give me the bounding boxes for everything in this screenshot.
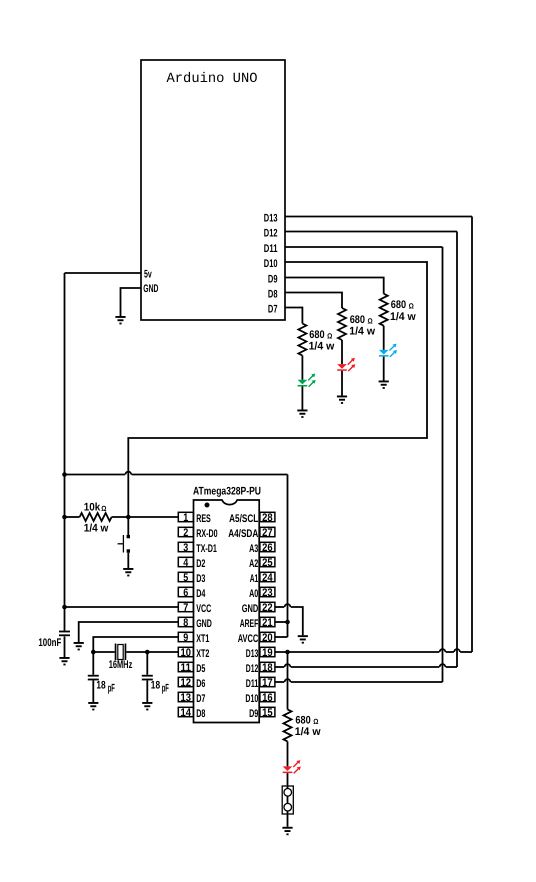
IC pin 25 A2: [249, 557, 275, 570]
wire hop pin19 over x457: [454, 649, 460, 652]
wire D8 to resistor: [285, 293, 342, 309]
LED red: [337, 358, 355, 371]
resistor 680 ohm (red LED): [338, 308, 346, 340]
IC pin 11 D5: [178, 662, 205, 675]
svg-text:ATmega328P-PU: ATmega328P-PU: [193, 486, 261, 498]
wire hop pin17 over x287.5: [285, 679, 291, 682]
wire 5v rail horizontal segment b: [132, 474, 288, 476]
wire red LED to ground: [341, 371, 343, 396]
capacitor 100nF: [59, 631, 70, 637]
svg-text:D9: D9: [268, 274, 278, 286]
svg-text:D10: D10: [245, 693, 258, 705]
svg-text:2: 2: [183, 527, 188, 539]
wire 5v to VCC pin 7: [65, 606, 179, 608]
svg-text:14: 14: [181, 707, 192, 719]
svg-text:21: 21: [262, 617, 273, 629]
capacitor 18pF right: [142, 675, 153, 681]
IC pin 26 A3: [249, 542, 275, 555]
svg-text:A1: A1: [250, 573, 259, 585]
svg-text:Arduino UNO: Arduino UNO: [167, 71, 258, 87]
svg-text:GND: GND: [196, 618, 212, 630]
svg-text:Ω: Ω: [313, 717, 318, 726]
svg-text:XT1: XT1: [196, 633, 209, 645]
svg-text:13: 13: [181, 692, 192, 704]
svg-text:1/4 w: 1/4 w: [349, 325, 375, 337]
IC pin 12 D6: [178, 677, 205, 690]
wire D11 net horizontal: [285, 246, 443, 248]
svg-text:9: 9: [183, 632, 188, 644]
wire hop pin18 over x287.5: [285, 664, 291, 667]
svg-text:Ω: Ω: [368, 316, 373, 325]
IC pin 7 VCC: [178, 602, 211, 615]
svg-text:20: 20: [262, 632, 273, 644]
IC pin 21 AREF: [240, 617, 275, 630]
svg-text:Ω: Ω: [409, 302, 414, 311]
svg-text:24: 24: [262, 572, 273, 584]
svg-text:23: 23: [262, 587, 273, 599]
ground 100nF: [59, 657, 69, 665]
wire D11 net vertical x=442.5: [442, 247, 444, 682]
svg-text:pF: pF: [108, 683, 115, 695]
IC pin 24 A1: [250, 572, 275, 585]
IC pin-1 indicator dot: [205, 503, 210, 508]
wire GND pin 22 segment a: [275, 606, 284, 608]
svg-text:5v: 5v: [144, 268, 152, 280]
wire 5v rail vertical to AVCC: [287, 475, 289, 638]
IC pin 5 D3: [178, 572, 205, 585]
svg-text:16: 16: [262, 692, 273, 704]
svg-text:A2: A2: [249, 558, 258, 570]
wire blue LED to ground: [383, 357, 385, 381]
junction crystal right node: [145, 650, 150, 655]
svg-text:VCC: VCC: [196, 603, 211, 615]
junction AREF on 5v vertical: [285, 620, 290, 625]
junction pin 19 and LED branch: [285, 650, 290, 655]
wire D12 net vertical x=457: [456, 232, 458, 668]
svg-text:1/4 w: 1/4 w: [309, 341, 335, 353]
ground blue LED: [379, 381, 389, 389]
wire pin 18 D12 segment a: [275, 666, 284, 668]
IC pin 27 A4/SDA: [228, 527, 275, 540]
svg-text:D7: D7: [196, 693, 205, 705]
svg-text:D10: D10: [264, 258, 278, 270]
junction 5v rail at VCC wire: [62, 605, 67, 610]
wire pin 19 D13 segment b: [446, 651, 454, 653]
ground pin 8: [74, 642, 84, 650]
svg-text:A4/SDA: A4/SDA: [228, 528, 258, 540]
svg-text:18: 18: [151, 680, 160, 692]
wire pin 18 D12 segment b: [291, 666, 440, 668]
svg-text:D8: D8: [196, 708, 205, 720]
IC pin 18 D12: [246, 662, 275, 675]
crystal 16MHz: [115, 644, 127, 661]
wire crystal right to XT2 pin 10: [126, 651, 178, 653]
svg-text:11: 11: [181, 662, 192, 674]
ground push button: [123, 568, 133, 576]
svg-text:XT2: XT2: [196, 648, 209, 660]
svg-text:16MHz: 16MHz: [109, 659, 133, 671]
wire crystal left: [93, 651, 114, 653]
resistor 680 ohm (green LED): [298, 324, 306, 356]
svg-text:1/4 w: 1/4 w: [295, 726, 321, 738]
IC pin 2 RX-D0: [178, 527, 217, 540]
junction crystal left node: [91, 650, 96, 655]
svg-text:D6: D6: [196, 678, 205, 690]
wire D13 net vertical x=472: [471, 217, 473, 653]
svg-text:1: 1: [183, 512, 188, 524]
wire D9 to resistor: [285, 278, 384, 294]
wire 100nF to ground: [64, 636, 66, 657]
svg-text:D4: D4: [196, 588, 206, 600]
wire pin 17 D11 segment a: [275, 681, 284, 683]
IC pin 8 GND: [178, 617, 212, 630]
wire left 18pF cap to ground: [92, 680, 94, 702]
svg-text:D3: D3: [196, 573, 205, 585]
wire pin19 junction to resistor: [287, 652, 289, 709]
svg-text:18: 18: [96, 680, 105, 692]
IC pin 14 D8: [178, 707, 205, 720]
wire pin 19 D13 segment a: [275, 651, 439, 653]
wire green LED to ground: [301, 387, 303, 410]
ground bottom connector: [282, 827, 292, 835]
svg-text:A0: A0: [249, 588, 258, 600]
svg-text:D5: D5: [196, 663, 205, 675]
svg-text:pF: pF: [162, 683, 169, 695]
junction 5v rail at y=474.5: [62, 472, 67, 477]
svg-text:7: 7: [183, 602, 188, 614]
wire resistor to red LED: [341, 340, 343, 364]
LED green: [298, 374, 316, 387]
svg-text:A3: A3: [249, 543, 258, 555]
svg-text:27: 27: [262, 527, 273, 539]
svg-text:5: 5: [183, 572, 188, 584]
svg-text:4: 4: [183, 557, 189, 569]
capacitor 18pF left: [88, 675, 99, 681]
IC pin 16 D10: [245, 692, 275, 705]
svg-text:1/4 w: 1/4 w: [390, 311, 416, 323]
svg-text:GND: GND: [242, 603, 259, 615]
wire resistor to blue LED: [383, 326, 385, 350]
wire Arduino 5v pin to left rail: [65, 272, 142, 274]
IC pin 19 D13: [246, 647, 275, 660]
svg-text:680: 680: [309, 329, 324, 341]
svg-text:D12: D12: [264, 228, 278, 240]
IC pin 6 D4: [178, 587, 206, 600]
wire D7 to resistor: [285, 308, 302, 324]
IC pin 17 D11: [246, 677, 275, 690]
svg-text:17: 17: [262, 677, 273, 689]
svg-text:6: 6: [183, 587, 188, 599]
svg-text:100nF: 100nF: [38, 637, 61, 649]
svg-text:AREF: AREF: [240, 618, 259, 630]
svg-text:Ω: Ω: [327, 331, 332, 340]
wire button to ground: [127, 553, 129, 568]
wire hop pin18 over x442.5: [440, 664, 446, 667]
wire resistor to green LED: [301, 356, 303, 380]
svg-text:D12: D12: [246, 663, 259, 675]
wire 5v rail horizontal segment a: [65, 474, 126, 476]
wire Arduino GND pin: [121, 288, 142, 316]
wire 10k to RES pin: [112, 516, 179, 518]
IC pin 20 AVCC: [238, 632, 275, 645]
ground left 18pF: [88, 702, 98, 710]
svg-text:15: 15: [262, 707, 273, 719]
ground red LED: [337, 396, 347, 404]
svg-text:680: 680: [350, 314, 365, 326]
IC pin 23 A0: [249, 587, 275, 600]
wire pin 17 D11 segment b: [291, 681, 443, 683]
wire GND pin 22 segment b: [291, 607, 303, 635]
resistor 680 ohm (bottom LED): [284, 709, 292, 741]
wire right 18pF cap to ground: [146, 680, 148, 702]
junction node RESET: [126, 515, 131, 520]
svg-text:TX-D1: TX-D1: [196, 543, 217, 555]
ground Arduino GND: [115, 316, 125, 324]
svg-text:8: 8: [183, 617, 188, 629]
ground pin 22: [298, 635, 308, 643]
svg-text:Ω: Ω: [101, 504, 106, 513]
wire 5v vertical rail x=64.5: [64, 273, 66, 631]
IC pin 4 D2: [178, 557, 205, 570]
svg-text:D2: D2: [196, 558, 205, 570]
LED red bottom: [283, 760, 301, 773]
svg-text:A5/SCL: A5/SCL: [229, 513, 258, 525]
svg-text:D8: D8: [268, 289, 278, 301]
svg-text:680: 680: [295, 715, 310, 727]
svg-text:RES: RES: [196, 513, 211, 525]
connector J1 2-pin: [282, 786, 293, 814]
wire resistor to bottom LED: [287, 741, 289, 766]
wire AVCC pin 20 to 5v: [275, 636, 288, 638]
IC pin 1 RES: [178, 512, 211, 525]
svg-text:26: 26: [262, 542, 273, 554]
wire right 18pF cap top: [146, 652, 148, 675]
wire bottom LED through connector to ground: [287, 773, 289, 827]
wire AREF pin 21 to 5v: [275, 621, 288, 623]
wire D13 net horizontal: [285, 216, 472, 218]
wire GND pin 8: [79, 622, 179, 642]
svg-text:10k: 10k: [84, 502, 101, 514]
svg-text:18: 18: [262, 662, 273, 674]
svg-text:12: 12: [181, 677, 192, 689]
junction 5v rail at 10k resistor: [62, 515, 67, 520]
resistor 10k ohm: [80, 513, 112, 521]
svg-text:25: 25: [262, 557, 273, 569]
wire hop pin19 over x442.5: [440, 649, 446, 652]
wire D10 reset net: [128, 262, 427, 517]
IC pin 9 XT1: [178, 632, 209, 645]
svg-text:D11: D11: [246, 678, 259, 690]
svg-text:22: 22: [262, 602, 273, 614]
resistor 680 ohm (blue LED): [380, 294, 388, 326]
svg-text:D13: D13: [264, 213, 278, 225]
wire hop 5v rail over reset line: [125, 472, 131, 475]
svg-text:D11: D11: [264, 243, 278, 255]
IC pin 10 XT2: [178, 647, 209, 660]
wire D12 net horizontal: [285, 231, 457, 233]
svg-text:D9: D9: [249, 708, 258, 720]
Arduino UNO module outline: [141, 60, 285, 320]
push button S1: [118, 535, 130, 553]
svg-text:AVCC: AVCC: [238, 633, 259, 645]
LED blue: [379, 344, 397, 357]
wire reset node to button: [127, 517, 129, 535]
svg-text:RX-D0: RX-D0: [196, 528, 217, 540]
wire left 18pF cap top: [92, 652, 94, 675]
ground right 18pF: [142, 702, 152, 710]
IC ATmega328P-PU body: [194, 500, 260, 723]
svg-text:19: 19: [262, 647, 273, 659]
svg-text:10: 10: [181, 647, 192, 659]
svg-text:680: 680: [391, 299, 406, 311]
wire 5v to 10k resistor: [65, 516, 80, 518]
IC pin 28 A5/SCL: [229, 512, 275, 525]
svg-text:D13: D13: [246, 648, 259, 660]
IC pin 13 D7: [178, 692, 205, 705]
svg-text:D7: D7: [268, 304, 278, 316]
svg-text:1/4 w: 1/4 w: [84, 523, 109, 535]
IC pin 22 GND: [242, 602, 275, 615]
IC pin 15 D9: [249, 707, 275, 720]
svg-text:28: 28: [262, 512, 273, 524]
wire pin 19 D13 segment c: [460, 651, 472, 653]
wire pin 18 D12 segment c: [446, 666, 457, 668]
svg-text:GND: GND: [143, 283, 158, 295]
IC pin 3 TX-D1: [178, 542, 217, 555]
svg-text:3: 3: [183, 542, 188, 554]
wire hop pin22 over 5v vertical: [285, 604, 291, 607]
ground green LED: [297, 410, 307, 418]
wire XT1 pin 9: [93, 637, 178, 652]
